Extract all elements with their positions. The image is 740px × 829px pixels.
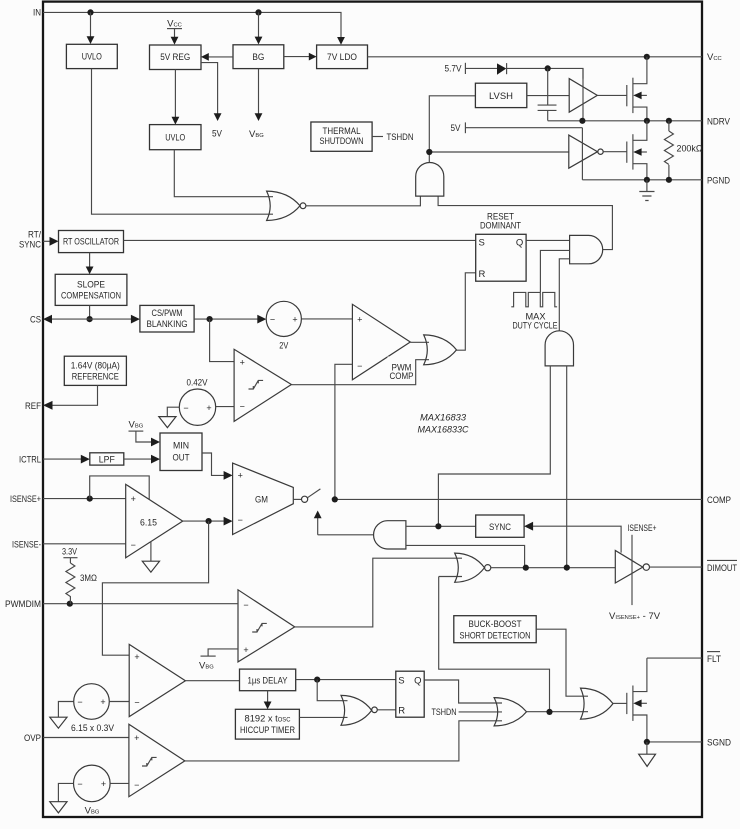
svg-text:−: −: [131, 540, 136, 550]
svg-text:SGND: SGND: [707, 738, 731, 749]
svg-text:−: −: [77, 779, 82, 789]
node junction on IN at BG: [255, 9, 261, 15]
gate OR2 (flt driver): [581, 688, 614, 719]
wire PWMDIM line: [43, 603, 238, 605]
svg-text:SHORT DETECTION: SHORT DETECTION: [460, 631, 531, 642]
svg-text:PGND: PGND: [707, 176, 730, 187]
wire RT OSC to SLOPE COMP: [89, 253, 91, 268]
block MIN OUT: [160, 433, 202, 471]
block HICCUP TIMER: [235, 709, 299, 739]
wire 2V to PWM comp: [301, 318, 352, 320]
svg-text:DOMINANT: DOMINANT: [480, 221, 521, 232]
wire COMP rail: [335, 498, 702, 500]
svg-text:+: +: [131, 494, 136, 504]
svg-text:+: +: [240, 358, 245, 368]
svg-text:−: −: [270, 314, 275, 324]
svg-text:+: +: [292, 314, 297, 324]
svg-text:SYNC: SYNC: [489, 522, 511, 533]
wire VBG to gnd: [58, 783, 73, 802]
block 1us DELAY: [240, 669, 296, 691]
gate NOR2 (hiccup): [341, 695, 372, 725]
svg-text:COMP: COMP: [707, 495, 731, 506]
wire ISENSE+ top tap to 6.15 amp: [90, 476, 150, 499]
wire OVP line: [43, 737, 129, 739]
gate AND3 (3-input): [570, 235, 603, 263]
wire buck-boost to OR2: [536, 629, 588, 696]
resistor R2 3M: [66, 563, 75, 604]
svg-text:RT OSCILLATOR: RT OSCILLATOR: [63, 237, 119, 248]
wire 6.15 gnd stub: [150, 542, 152, 562]
block 7V LDO: [317, 45, 368, 69]
svg-text:HICCUP TIMER: HICCUP TIMER: [240, 725, 295, 736]
svg-text:UVLO: UVLO: [165, 133, 185, 144]
svg-text:DIMOUT: DIMOUT: [707, 563, 737, 574]
block UVLO2: [150, 125, 202, 150]
amp GM: [233, 463, 294, 534]
svg-text:R: R: [479, 269, 486, 280]
supply tap VBG (pwmdim comp): [201, 655, 216, 657]
ground triangle (6.15x0.3V): [50, 717, 67, 728]
wire CS/PWM out to 2V source: [194, 318, 258, 320]
svg-text:+: +: [134, 652, 139, 662]
svg-text:6.15: 6.15: [140, 518, 157, 529]
wire LVSH to upper driver: [527, 95, 569, 97]
gate AND C (max duty, vertical): [545, 331, 573, 366]
svg-text:MIN: MIN: [173, 441, 189, 452]
svg-text:SLOPE: SLOPE: [77, 280, 105, 291]
wire OR1 out to OR2: [527, 711, 589, 713]
wire boot rail through driver: [582, 68, 584, 120]
wire TSHDN to OR1: [459, 711, 502, 713]
wire 5V REG to 5V output: [201, 63, 218, 115]
wire THERMAL SHUTDOWN to TSHDN label: [372, 136, 383, 138]
wire fault node to NOR dimout input2: [439, 577, 550, 712]
svg-text:−: −: [134, 780, 139, 790]
svg-text:TSHDN: TSHDN: [432, 707, 457, 718]
wire lower driver to mosfet gate: [603, 151, 627, 153]
icon hysteresis (PWMDIM comparator): [252, 623, 267, 632]
wire sync node to AND D input1: [406, 525, 476, 527]
wire 1us delay out to SR2 S: [296, 679, 396, 681]
svg-text:6.15 x 0.3V: 6.15 x 0.3V: [71, 723, 115, 734]
wire hiccup to NOR2: [299, 716, 347, 718]
svg-text:UVLO: UVLO: [82, 52, 102, 63]
svg-text:BG: BG: [252, 52, 264, 63]
buffer DIMOUT driver: [615, 551, 643, 584]
svg-text:CS: CS: [30, 315, 41, 326]
svg-text:R: R: [398, 705, 405, 716]
svg-text:+: +: [100, 697, 105, 707]
wire CS/PWM out down to slope comparator: [210, 319, 235, 362]
wire VBG to OVP comp minus: [110, 782, 129, 784]
block SLOPE COMPENSATION: [55, 274, 127, 305]
svg-text:+: +: [206, 403, 211, 413]
block UVLO (input): [66, 44, 117, 68]
block BG: [233, 45, 284, 69]
comparator PWMDIM (hysteresis): [238, 590, 295, 662]
buffer lower gate driver (inverting): [569, 135, 598, 168]
comparator PWM COMP: [352, 304, 410, 380]
wire up-AND right input from dimout node: [566, 366, 568, 568]
svg-text:ISENSE+: ISENSE+: [10, 494, 41, 505]
svg-text:COMPENSATION: COMPENSATION: [61, 291, 121, 302]
wire LPF to MIN OUT: [124, 458, 153, 460]
wire up-AND out to AND3: [559, 259, 569, 331]
svg-text:0.42V: 0.42V: [187, 378, 209, 389]
wire IN to UVLO: [90, 12, 92, 37]
comparator slope/blanking (hysteresis): [234, 349, 291, 421]
gate NOR dimout: [455, 553, 485, 582]
svg-text:LVSH: LVSH: [489, 91, 513, 102]
block 1.64V REFERENCE: [64, 356, 126, 385]
svg-text:−: −: [240, 402, 245, 412]
wire CS line: [51, 318, 133, 320]
svg-text:OVP: OVP: [24, 733, 41, 744]
svg-text:COMP: COMP: [390, 371, 414, 382]
svg-text:5V: 5V: [451, 123, 462, 134]
amp 6.15 current sense: [126, 484, 183, 558]
svg-text:DUTY CYCLE: DUTY CYCLE: [513, 320, 558, 331]
wire SGND line: [647, 741, 702, 743]
svg-text:5V REG: 5V REG: [160, 52, 190, 63]
svg-text:+: +: [357, 315, 362, 325]
wire UVLO1 down to NOR: [92, 69, 274, 215]
wire dimout buffer tap to SYNC input: [533, 526, 621, 552]
wire DIMOUT to pin: [650, 566, 703, 568]
wire NOR out to AND-A input1: [306, 196, 421, 206]
svg-text:OUT: OUT: [173, 453, 190, 464]
wire 1us delay down to hiccup: [267, 691, 269, 703]
wire 6.15x0.3V to gnd: [58, 702, 73, 718]
wire comparator F1 out to 1us delay: [185, 680, 239, 682]
svg-text:−: −: [77, 697, 82, 707]
wire BG to 7V LDO: [284, 56, 310, 58]
svg-text:S: S: [479, 238, 485, 249]
wire AND3 return to AND-A input2: [438, 196, 612, 250]
block CS/PWM BLANKING: [140, 305, 194, 332]
wire diode to boot node: [507, 68, 583, 78]
svg-text:S: S: [398, 676, 404, 687]
wire IN to BG: [258, 12, 260, 37]
flip-flop SR2: [396, 671, 424, 717]
svg-text:Q: Q: [414, 676, 421, 687]
comparator F1 (short fault): [129, 644, 185, 716]
wire REFERENCE to REF pin: [52, 385, 98, 405]
block RT OSCILLATOR: [59, 231, 124, 253]
svg-text:IN: IN: [33, 8, 41, 19]
wire NOR dimout to buffer: [491, 567, 616, 569]
source 2V offset: [266, 301, 301, 336]
wire ICTRL to LPF: [43, 458, 83, 460]
gate AND A (driver enable, vertical): [416, 162, 444, 196]
svg-text:FLT: FLT: [707, 654, 721, 665]
svg-text:REF: REF: [25, 401, 41, 412]
svg-text:MAX16833: MAX16833: [420, 413, 467, 424]
block SYNC: [476, 515, 524, 537]
svg-text:NDRV: NDRV: [707, 117, 731, 128]
svg-text:ICTRL: ICTRL: [19, 455, 41, 466]
source 6.15 x 0.3V: [74, 684, 110, 720]
svg-text:BUCK-BOOST: BUCK-BOOST: [469, 619, 522, 630]
wire AND A output node: [429, 96, 475, 163]
wire NDRV rail: [548, 120, 702, 122]
capacitor C1: [547, 68, 549, 104]
block THERMAL SHUTDOWN: [311, 122, 372, 151]
gate AND D (switch control, left pointing): [374, 521, 406, 549]
wire AND D input2 from NOR dimout out: [406, 545, 525, 567]
ground triangle (6.15 amp): [142, 561, 159, 572]
block BUCK-BOOST SHORT DETECTION: [454, 616, 536, 643]
svg-text:5V: 5V: [212, 129, 223, 140]
icon hysteresis (slope comparator): [249, 380, 264, 389]
ground triangle (VBG): [50, 802, 67, 813]
wire 5V REG to UVLO2: [174, 70, 176, 119]
svg-text:+: +: [134, 733, 139, 743]
svg-text:GM: GM: [255, 495, 268, 506]
wire 1us node to NOR2: [317, 680, 347, 701]
diode D1: [497, 63, 506, 74]
block LVSH: [475, 83, 526, 107]
source VBG (ovp): [74, 765, 111, 802]
svg-text:BLANKING: BLANKING: [147, 319, 188, 330]
wire FLT line: [647, 657, 702, 659]
svg-text:+: +: [238, 471, 243, 481]
wire OR2 to mosfet M3 gate: [613, 702, 627, 704]
wire driver to NDRV mosfet gate: [597, 94, 627, 96]
block LPF: [90, 453, 124, 465]
wire IN to 7V LDO arrow: [337, 37, 345, 45]
svg-text:LPF: LPF: [99, 454, 115, 465]
svg-text:3MΩ: 3MΩ: [80, 573, 97, 584]
svg-text:CS/PWM: CS/PWM: [152, 308, 183, 319]
wire ISENSE+ line: [43, 498, 126, 500]
svg-text:MAX16833C: MAX16833C: [418, 425, 469, 436]
flip-flop SR1: [476, 234, 526, 281]
svg-text:−: −: [243, 600, 248, 610]
svg-text:2V: 2V: [279, 341, 289, 352]
wire NOR2 to SR2 R: [377, 709, 396, 711]
svg-text:1µs DELAY: 1µs DELAY: [248, 675, 289, 686]
comparator OVP (hysteresis): [129, 724, 185, 797]
wire max duty waveform to AND3: [540, 250, 569, 292]
mosfet M2 (NDRV low side): [626, 142, 628, 163]
wire BG to 5V REG: [204, 56, 233, 58]
node junction on IN at UVLO: [87, 9, 93, 15]
wire PGND rail: [582, 179, 702, 181]
svg-text:200kΩ: 200kΩ: [677, 144, 703, 155]
wire SLOPE COMP to CS line: [89, 305, 91, 319]
svg-text:SYNC: SYNC: [19, 240, 41, 251]
icon hysteresis (OVP comparator): [142, 757, 157, 766]
svg-text:7V LDO: 7V LDO: [327, 52, 357, 63]
svg-text:ISENSE-: ISENSE-: [12, 539, 41, 550]
svg-text:3.3V: 3.3V: [62, 547, 78, 558]
wire IN rail: [43, 12, 341, 39]
icon MAX DUTY CYCLE waveform: [511, 292, 557, 306]
wire 0.42V to slope comparator: [216, 406, 234, 408]
ground triangle (0.42V): [159, 417, 176, 428]
wire OVP comp to OR1: [185, 721, 502, 761]
svg-text:5.7V: 5.7V: [445, 64, 463, 75]
svg-text:ISENSE+: ISENSE+: [628, 523, 657, 534]
mosfet M1 (NDRV high side): [626, 85, 628, 106]
svg-text:−: −: [183, 403, 188, 413]
svg-text:Q: Q: [516, 238, 523, 249]
switch GM output: [293, 498, 301, 500]
wire 0.42V to gnd: [167, 407, 179, 417]
resistor R1 200k: [668, 121, 670, 131]
gate OR1 (fault 3-input): [494, 698, 526, 726]
wire SR1 Q to AND3: [526, 239, 570, 241]
mosfet M3 (FLT): [626, 693, 628, 714]
svg-text:REFERENCE: REFERENCE: [72, 371, 119, 382]
wire up-AND left input from sync node: [438, 366, 550, 526]
buffer upper gate driver: [569, 79, 597, 113]
wire OR B out to SR1 R: [457, 273, 476, 350]
ground earth PGND: [646, 180, 648, 192]
svg-text:−: −: [134, 698, 139, 708]
wire slope comparator out to OR-R: [291, 360, 429, 385]
svg-text:−: −: [238, 515, 243, 525]
wire VCC rail: [368, 56, 703, 58]
svg-text:+: +: [243, 645, 248, 655]
wire 6.15 out down to fault comparator: [102, 521, 208, 655]
block 5V REG: [150, 45, 202, 70]
svg-text:1.64V (80µA): 1.64V (80µA): [71, 360, 120, 371]
wire MIN OUT to GM plus: [202, 453, 225, 475]
svg-text:−: −: [357, 361, 362, 371]
wire 6.15 out to GM minus: [183, 520, 225, 522]
svg-text:SHUTDOWN: SHUTDOWN: [320, 136, 364, 147]
svg-text:PWMDIM: PWMDIM: [5, 599, 41, 610]
wire PWM comp minus input from COMP node: [335, 364, 353, 499]
wire BG to VBG output: [258, 69, 260, 115]
svg-text:+: +: [101, 779, 106, 789]
wire PWMDIM comp out to NOR dimout: [295, 558, 462, 627]
wire switch control arrow: [317, 518, 319, 535]
gate NOR U1 (UVLO nor): [267, 191, 300, 220]
wire PWM comp out to OR-R: [410, 341, 429, 343]
gate OR B (to R input): [424, 335, 457, 365]
ground triangle (SGND): [646, 742, 648, 755]
wire ISENSE- line: [43, 543, 126, 545]
wire UVLO2 down to NOR: [174, 150, 273, 197]
wire 6.15x0.3V to comparator F1: [109, 701, 129, 703]
svg-text:TSHDN: TSHDN: [387, 132, 414, 143]
wire RT OSC to SR1 S: [124, 239, 476, 241]
wire SR2 Q to OR1: [424, 680, 502, 703]
